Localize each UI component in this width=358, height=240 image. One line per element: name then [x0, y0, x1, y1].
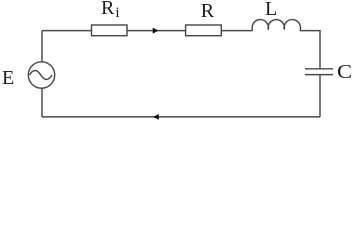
wire R to L: [221, 30, 252, 32]
AC source sine wave: [30, 71, 53, 80]
wire source to top-left corner: [41, 31, 43, 62]
wire bottom-left vertical up to source: [41, 88, 43, 117]
wire capacitor to bottom-right corner: [319, 75, 321, 117]
capacitor C1 bottom plate: [305, 74, 333, 76]
label C: [337, 62, 352, 82]
inductor L1 (L): [252, 20, 300, 31]
wire bottom horizontal: [42, 116, 320, 118]
resistor R1 (R_i): [92, 25, 128, 36]
resistor R2 (R): [186, 25, 222, 36]
capacitor C1 top plate: [305, 68, 333, 70]
AC source E (circle): [28, 62, 54, 88]
current arrow bottom (node b): [153, 114, 159, 120]
label L: [265, 0, 277, 19]
label R_i: [101, 0, 120, 21]
label R: [201, 1, 214, 21]
wire L to right corner: [300, 31, 320, 69]
label E: [2, 68, 14, 88]
wire Ri to R: [127, 30, 186, 32]
wire top-left horizontal from source corner to Ri: [42, 30, 92, 32]
current arrow top (node a): [153, 28, 159, 34]
